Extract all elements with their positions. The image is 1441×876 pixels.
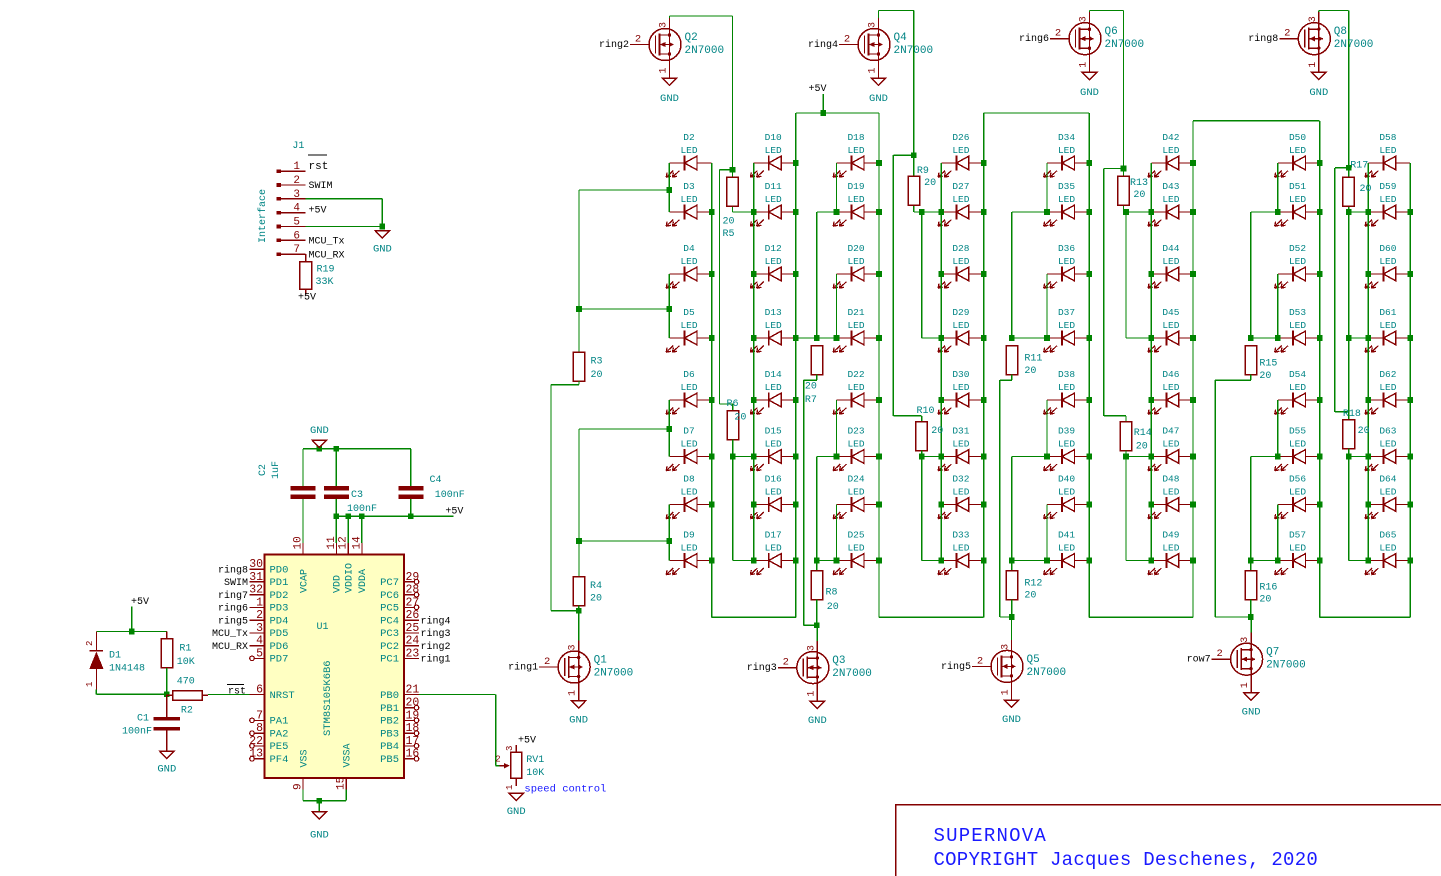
wire col3 upper tap — [817, 211, 837, 213]
LED D7 — [666, 426, 711, 471]
svg-text:2: 2 — [783, 657, 789, 669]
svg-text:LED: LED — [1162, 542, 1179, 553]
wire R4 bottom — [578, 606, 580, 611]
svg-text:PC6: PC6 — [380, 590, 399, 602]
wire Q1 drain — [578, 611, 580, 641]
svg-text:ring1: ring1 — [508, 662, 538, 674]
svg-text:D1: D1 — [109, 651, 121, 662]
svg-text:+5V: +5V — [131, 597, 149, 608]
resistor R17 — [1343, 161, 1372, 207]
power +5V — [822, 94, 824, 113]
svg-text:3: 3 — [256, 622, 263, 635]
junction Q1 drain node — [576, 608, 582, 614]
svg-text:D13: D13 — [765, 307, 782, 318]
svg-text:D38: D38 — [1058, 369, 1075, 380]
junction col3 right bus rows — [876, 160, 882, 166]
svg-text:3: 3 — [868, 22, 879, 28]
wire R19 bottom — [305, 289, 307, 294]
svg-text:D5: D5 — [683, 307, 695, 318]
svg-text:RV1: RV1 — [526, 755, 544, 766]
svg-text:100nF: 100nF — [347, 504, 377, 515]
U1 pin 20 PB1 — [380, 697, 419, 715]
svg-text:6: 6 — [293, 230, 300, 242]
svg-text:LED: LED — [680, 382, 697, 393]
svg-text:R3: R3 — [591, 357, 603, 368]
svg-text:5: 5 — [293, 217, 300, 229]
svg-text:R4: R4 — [590, 581, 602, 592]
svg-text:LED: LED — [1379, 542, 1396, 553]
capacitor C2 — [258, 449, 316, 543]
svg-text:LED: LED — [680, 438, 697, 449]
svg-text:LED: LED — [765, 256, 782, 267]
junction col3 pair bottoms — [834, 209, 840, 215]
svg-text:row7: row7 — [1187, 655, 1211, 666]
LED D28 — [938, 243, 984, 288]
svg-text:2: 2 — [977, 655, 983, 667]
capacitor C4 — [398, 449, 464, 517]
svg-text:LED: LED — [952, 382, 969, 393]
connector J1 — [257, 141, 306, 256]
svg-text:7: 7 — [256, 709, 263, 722]
wire col1 left bus upper — [578, 190, 580, 352]
junction R7 top — [814, 335, 820, 341]
wire Q5 drain — [1011, 617, 1013, 640]
svg-text:1: 1 — [1308, 62, 1319, 68]
LED D51 — [1275, 181, 1320, 226]
svg-text:J1: J1 — [292, 141, 304, 152]
wire J1 pin5 to ground — [306, 226, 383, 228]
svg-text:GND: GND — [1002, 714, 1021, 726]
potentiometer RV1 — [495, 745, 544, 790]
svg-text:VDDIO: VDDIO — [344, 563, 355, 593]
wire col5 pair verticals — [1046, 163, 1048, 212]
svg-text:D33: D33 — [952, 530, 969, 541]
U1 pin 31 PD1 — [224, 571, 288, 589]
wire col6 mid bus segment — [1125, 212, 1127, 338]
svg-text:GND: GND — [808, 715, 827, 727]
junction col5 lower T — [1009, 558, 1015, 564]
svg-text:R7: R7 — [805, 395, 817, 406]
svg-text:R19: R19 — [317, 265, 335, 276]
svg-text:LED: LED — [1379, 145, 1396, 156]
svg-text:LED: LED — [1289, 256, 1306, 267]
LED D50 — [1275, 132, 1320, 177]
svg-text:2: 2 — [1055, 28, 1061, 40]
resistor R19 — [300, 262, 335, 290]
U1 pin 7 PA1 — [250, 709, 289, 727]
wire J1 pin3 to ground — [306, 198, 383, 200]
U1 pin 19 PB2 — [380, 709, 419, 727]
svg-text:STM8S105K6B6: STM8S105K6B6 — [322, 660, 334, 736]
LED D55 — [1275, 426, 1320, 471]
svg-text:20: 20 — [406, 697, 420, 710]
junction GND rail — [317, 446, 323, 452]
junction col1 lower stub — [576, 538, 582, 544]
wire col8 left bus — [1367, 163, 1369, 561]
svg-text:20: 20 — [931, 426, 943, 437]
svg-text:LED: LED — [765, 486, 782, 497]
LED D10 — [750, 132, 795, 177]
svg-text:2: 2 — [1284, 28, 1290, 40]
capacitor C1 — [122, 694, 180, 751]
wire R10 bottom taps — [921, 451, 923, 457]
wire col1 R3 bottom jog — [578, 381, 580, 385]
svg-text:D62: D62 — [1379, 369, 1396, 380]
resistor R9 — [908, 166, 936, 206]
resistor R14 — [1120, 422, 1152, 453]
wire col4 mid bus segment — [921, 212, 923, 338]
U1 pin 5 PD7 — [250, 647, 289, 665]
resistor R6 — [727, 399, 747, 440]
svg-text:C4: C4 — [430, 475, 442, 486]
U1 pin 32 PD2 — [218, 584, 288, 602]
svg-text:D30: D30 — [952, 369, 969, 380]
svg-text:U1: U1 — [316, 622, 328, 633]
wire R2 to NRST — [208, 694, 250, 696]
LED D6 — [666, 369, 711, 414]
svg-text:1: 1 — [256, 596, 263, 609]
LED D39 — [1044, 426, 1090, 471]
svg-text:LED: LED — [1379, 438, 1396, 449]
svg-text:C1: C1 — [137, 714, 149, 725]
wire col4 right bus — [983, 113, 985, 617]
svg-text:PD2: PD2 — [270, 590, 289, 602]
svg-text:D48: D48 — [1162, 474, 1179, 485]
svg-text:D19: D19 — [847, 181, 864, 192]
junction col2 right bus rows — [793, 160, 799, 166]
svg-text:R9: R9 — [917, 166, 929, 177]
wire U1 VSS to ground — [302, 789, 304, 800]
wire col7 right bus — [1319, 121, 1321, 618]
svg-text:PD3: PD3 — [270, 603, 289, 615]
svg-text:PA2: PA2 — [270, 729, 289, 741]
svg-text:2N7000: 2N7000 — [832, 668, 872, 680]
wire R11 top row — [1012, 337, 1047, 339]
svg-text:3: 3 — [1308, 16, 1319, 22]
svg-text:LED: LED — [1058, 194, 1075, 205]
wire bottom link col3-col4 — [879, 616, 984, 618]
svg-text:1: 1 — [868, 67, 879, 73]
svg-text:D58: D58 — [1379, 132, 1396, 143]
svg-text:D10: D10 — [765, 132, 782, 143]
svg-text:PD7: PD7 — [270, 654, 289, 666]
svg-text:LED: LED — [1379, 194, 1396, 205]
svg-text:LED: LED — [765, 145, 782, 156]
svg-text:20: 20 — [924, 178, 936, 189]
resistor R1 — [166, 632, 168, 639]
LED D37 — [1044, 307, 1090, 352]
svg-text:LED: LED — [1058, 486, 1075, 497]
svg-text:LED: LED — [765, 542, 782, 553]
wire R12 bottom — [1011, 600, 1013, 618]
wire R6 bottom taps — [732, 440, 734, 457]
junction col8 left bus rows — [1366, 209, 1372, 215]
wire col2 left bus — [753, 163, 755, 561]
svg-text:1N4148: 1N4148 — [109, 664, 145, 675]
diode D1 1N4148 — [85, 632, 145, 690]
svg-text:D21: D21 — [847, 307, 864, 318]
svg-text:D4: D4 — [683, 243, 695, 254]
svg-text:3: 3 — [806, 645, 817, 651]
LED D52 — [1275, 243, 1320, 288]
svg-text:1: 1 — [293, 161, 300, 173]
svg-text:D26: D26 — [952, 132, 969, 143]
transistor Q2 — [599, 18, 724, 78]
LED D13 — [750, 307, 795, 352]
wire col7 upper tap — [1251, 211, 1278, 213]
svg-text:SWIM: SWIM — [309, 181, 333, 192]
U1 pin 14 VDDA — [351, 536, 369, 593]
svg-text:+5V: +5V — [298, 293, 316, 304]
svg-text:30: 30 — [249, 558, 263, 571]
wire R7 top row — [817, 337, 837, 339]
svg-text:3: 3 — [659, 22, 670, 28]
svg-text:LED: LED — [847, 256, 864, 267]
wire Q8 drain to R — [1318, 11, 1320, 13]
svg-text:2: 2 — [256, 609, 263, 622]
junction R6 bottom — [730, 454, 736, 460]
capacitor C3 — [324, 449, 377, 517]
wire col2 drain feed vertical — [720, 169, 733, 171]
svg-text:D31: D31 — [952, 426, 969, 437]
U1 pin 27 PC5 — [380, 596, 419, 614]
svg-text:R8: R8 — [826, 588, 838, 599]
svg-text:LED: LED — [1058, 438, 1075, 449]
svg-text:PB0: PB0 — [380, 690, 399, 702]
svg-text:VCAP: VCAP — [299, 569, 310, 593]
svg-text:D64: D64 — [1379, 474, 1396, 485]
LED D61 — [1365, 307, 1410, 352]
svg-text:LED: LED — [1289, 382, 1306, 393]
svg-text:LED: LED — [1162, 320, 1179, 331]
wire bottom link col1-col2 — [712, 616, 796, 618]
LED D53 — [1275, 307, 1320, 352]
svg-text:LED: LED — [847, 145, 864, 156]
LED D22 — [833, 369, 879, 414]
junction col4 right bus rows — [981, 160, 987, 166]
svg-text:D57: D57 — [1289, 530, 1306, 541]
svg-text:D50: D50 — [1289, 132, 1306, 143]
junction col7 drain node — [1248, 614, 1254, 620]
resistor R7 — [805, 346, 823, 407]
LED D14 — [750, 369, 795, 414]
wire R7 link to col2 right bus — [796, 337, 817, 339]
svg-text:D61: D61 — [1379, 307, 1396, 318]
svg-text:D39: D39 — [1058, 426, 1075, 437]
svg-text:LED: LED — [1162, 145, 1179, 156]
LED D20 — [833, 243, 879, 288]
junction rst node — [164, 692, 170, 698]
LED D19 — [833, 181, 879, 226]
svg-text:25: 25 — [406, 622, 420, 635]
svg-text:Q4: Q4 — [894, 32, 908, 44]
LED D59 — [1365, 181, 1410, 226]
svg-text:100nF: 100nF — [435, 490, 465, 501]
svg-text:2N7000: 2N7000 — [894, 45, 934, 57]
wire GND rail above caps — [303, 448, 411, 450]
wire Q4 drain to R — [878, 11, 880, 19]
svg-text:D37: D37 — [1058, 307, 1075, 318]
svg-text:PC3: PC3 — [380, 628, 399, 640]
svg-text:SUPERNOVA: SUPERNOVA — [934, 825, 1047, 847]
LED D48 — [1148, 474, 1193, 519]
ground — [1080, 72, 1099, 99]
svg-text:D25: D25 — [847, 530, 864, 541]
svg-text:LED: LED — [1289, 486, 1306, 497]
ground — [157, 751, 176, 775]
junction col4 mid bus — [919, 209, 925, 215]
svg-text:2N7000: 2N7000 — [594, 668, 634, 680]
wire col4 drain feed vertical — [893, 154, 914, 156]
svg-text:Q6: Q6 — [1105, 26, 1118, 38]
U1 pin 22 PE5 — [249, 735, 288, 753]
svg-text:PC7: PC7 — [380, 577, 399, 589]
svg-text:PD4: PD4 — [270, 615, 289, 627]
svg-text:D63: D63 — [1379, 426, 1396, 437]
svg-text:6: 6 — [256, 684, 263, 697]
U1 pin 29 PC7 — [380, 571, 419, 589]
svg-text:LED: LED — [952, 438, 969, 449]
LED D34 — [1044, 132, 1090, 177]
svg-text:2: 2 — [293, 175, 300, 187]
LED D16 — [750, 474, 795, 519]
LED D24 — [833, 474, 879, 519]
svg-text:D28: D28 — [952, 243, 969, 254]
svg-text:1: 1 — [1240, 682, 1251, 688]
U1 pin 26 PC4 — [380, 609, 450, 627]
svg-text:LED: LED — [1289, 194, 1306, 205]
svg-text:20: 20 — [805, 382, 817, 393]
svg-text:21: 21 — [406, 684, 420, 697]
svg-text:LED: LED — [847, 542, 864, 553]
wire col8 right bus — [1409, 163, 1411, 617]
svg-text:15: 15 — [336, 777, 348, 790]
svg-text:D2: D2 — [683, 132, 695, 143]
svg-text:D56: D56 — [1289, 474, 1306, 485]
svg-text:MCU_Tx: MCU_Tx — [212, 629, 248, 640]
U1 pin 13 PF4 — [249, 748, 288, 766]
svg-text:1: 1 — [505, 785, 515, 790]
svg-text:R16: R16 — [1259, 583, 1277, 594]
svg-text:C3: C3 — [351, 490, 363, 501]
svg-text:D65: D65 — [1379, 530, 1396, 541]
svg-text:ring5: ring5 — [941, 661, 971, 673]
wire PB0 to RV1 — [419, 694, 496, 696]
LED D44 — [1148, 243, 1193, 288]
wire col6 right bus — [1192, 121, 1194, 618]
svg-text:GND: GND — [157, 764, 176, 776]
junction J1 ground node — [380, 224, 386, 230]
svg-text:ring2: ring2 — [599, 39, 629, 51]
wire col3 right bus — [878, 113, 880, 617]
svg-text:D36: D36 — [1058, 243, 1075, 254]
svg-text:PA1: PA1 — [270, 716, 289, 728]
wire col5 right bus — [1088, 113, 1090, 617]
svg-text:LED: LED — [1058, 256, 1075, 267]
IC U1 STM8S105K6B6 — [265, 555, 405, 779]
wire Q3 drain — [816, 625, 818, 641]
svg-text:2: 2 — [1216, 648, 1222, 660]
LED D12 — [750, 243, 795, 288]
LED D29 — [938, 307, 984, 352]
svg-text:PC4: PC4 — [380, 615, 399, 627]
svg-text:VDDA: VDDA — [358, 569, 369, 593]
svg-text:GND: GND — [569, 715, 588, 727]
svg-text:LED: LED — [847, 320, 864, 331]
svg-text:20: 20 — [723, 217, 735, 228]
wire col1 stubs — [579, 189, 669, 191]
wire bottom link col7-col8 — [1320, 616, 1411, 618]
junction col4 left bus rows — [939, 209, 945, 215]
junction R15 top — [1248, 335, 1254, 341]
LED D42 — [1148, 132, 1193, 177]
svg-text:PD0: PD0 — [270, 564, 289, 576]
LED D56 — [1275, 474, 1320, 519]
svg-text:LED: LED — [952, 256, 969, 267]
svg-text:PF4: PF4 — [270, 754, 289, 766]
svg-text:LED: LED — [680, 542, 697, 553]
svg-text:D60: D60 — [1379, 243, 1396, 254]
svg-text:470: 470 — [177, 677, 195, 688]
svg-text:LED: LED — [1162, 486, 1179, 497]
svg-text:LED: LED — [847, 382, 864, 393]
svg-text:D16: D16 — [765, 474, 782, 485]
junction R18 bottom — [1346, 454, 1352, 460]
svg-text:20: 20 — [827, 602, 839, 613]
LED D4 — [666, 243, 711, 288]
svg-text:23: 23 — [406, 647, 420, 660]
svg-text:LED: LED — [765, 194, 782, 205]
svg-text:D44: D44 — [1162, 243, 1179, 254]
LED D40 — [1044, 474, 1090, 519]
svg-text:20: 20 — [1360, 184, 1372, 195]
svg-text:PB1: PB1 — [380, 703, 399, 715]
svg-text:ring8: ring8 — [218, 564, 248, 576]
svg-text:LED: LED — [765, 320, 782, 331]
wire col3 lower tap — [817, 456, 837, 458]
U1 pin 16 PB5 — [380, 748, 419, 766]
ground — [310, 425, 329, 448]
svg-text:LED: LED — [1058, 320, 1075, 331]
svg-text:29: 29 — [406, 571, 420, 584]
svg-text:2N7000: 2N7000 — [1027, 667, 1067, 679]
svg-text:+5V: +5V — [808, 84, 826, 95]
wire Q7 drain — [1250, 617, 1252, 633]
transistor Q1 — [508, 641, 633, 701]
svg-text:ring3: ring3 — [421, 628, 451, 640]
transistor Q3 — [747, 641, 872, 701]
svg-text:19: 19 — [406, 709, 420, 722]
LED D32 — [938, 474, 984, 519]
svg-text:D22: D22 — [847, 369, 864, 380]
U1 pin 18 PB3 — [380, 722, 419, 740]
svg-text:R1: R1 — [179, 644, 191, 655]
transistor Q8 — [1248, 12, 1373, 72]
svg-text:2: 2 — [495, 755, 500, 765]
U1 pin 25 PC3 — [380, 622, 450, 640]
svg-text:LED: LED — [1162, 438, 1179, 449]
svg-text:LED: LED — [765, 382, 782, 393]
svg-text:PC5: PC5 — [380, 603, 399, 615]
U1 pin 12 VDDIO — [338, 536, 356, 593]
svg-text:R5: R5 — [723, 229, 735, 240]
LED D43 — [1148, 181, 1193, 226]
svg-text:C2: C2 — [258, 464, 269, 476]
wire Q1 drain — [578, 611, 580, 641]
wire col6 drain feed vertical — [1104, 168, 1124, 170]
svg-text:1uF: 1uF — [271, 461, 282, 479]
ground — [660, 78, 679, 105]
